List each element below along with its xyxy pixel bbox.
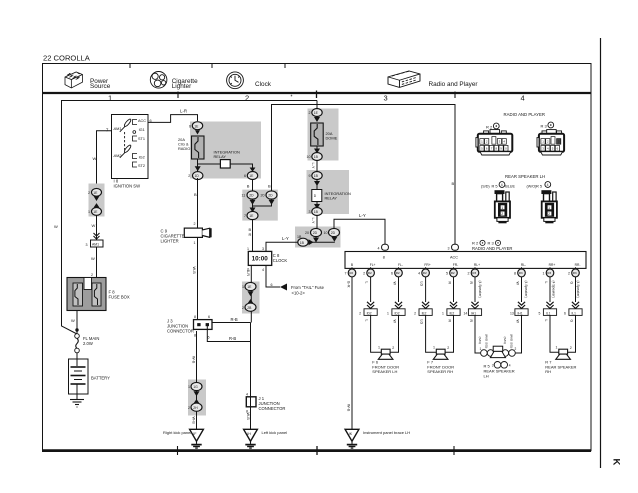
svg-text:4: 4 [246,393,248,397]
svg-text:1: 1 [247,247,249,251]
svg-text:8: 8 [383,256,385,260]
svg-text:RR+: RR+ [549,263,556,267]
svg-text:W: W [516,282,520,286]
svg-text:2D: 2D [313,231,318,235]
svg-text:R2: R2 [396,271,400,275]
svg-text:1: 1 [387,312,389,316]
svg-text:(S/D): (S/D) [503,337,507,344]
svg-text:L: L [365,320,369,322]
svg-text:1E: 1E [93,210,98,214]
svg-text:R: R [448,320,452,323]
svg-text:SPEAKER RH: SPEAKER RH [427,369,453,374]
svg-text:RELAY: RELAY [325,196,338,201]
svg-text:ACC: ACC [138,119,146,123]
svg-text:6: 6 [244,174,246,178]
svg-text:2: 2 [245,94,249,103]
svg-text:8: 8 [194,334,196,338]
svg-text:11: 11 [242,194,246,198]
svg-text:1: 1 [543,272,545,276]
svg-text:6: 6 [564,312,566,316]
svg-text:4: 4 [521,94,525,103]
svg-text:R: R [469,282,473,285]
svg-text:B: B [452,181,455,186]
svg-text:1E: 1E [194,124,199,128]
svg-text:IE2: IE2 [422,311,427,315]
svg-text:W: W [393,320,397,324]
svg-text:W-B: W-B [192,267,196,275]
svg-text:2: 2 [188,174,190,178]
svg-text:(S/D): (S/D) [478,337,482,344]
svg-text:ID2: ID2 [367,311,372,315]
svg-text:IK: IK [349,432,353,436]
svg-text:RADIO: RADIO [178,146,190,151]
svg-text:1E: 1E [247,285,252,289]
svg-text:RADIO AND PLAYER: RADIO AND PLAYER [472,246,512,251]
svg-text:2: 2 [188,406,190,410]
svg-text:20: 20 [305,231,309,235]
svg-text:R: R [469,320,473,323]
svg-text:4: 4 [378,247,380,251]
svg-text:2: 2 [309,111,311,115]
svg-text:W: W [71,318,75,323]
svg-text:1: 1 [108,94,112,103]
svg-text:IGNITION SW: IGNITION SW [114,184,141,189]
svg-text:1E: 1E [249,214,254,218]
svg-text:R3: R3 [519,271,523,275]
svg-text:SPEAKER LH: SPEAKER LH [372,369,397,374]
svg-text:L-Y: L-Y [311,163,315,169]
svg-text:1: 1 [194,241,196,245]
svg-text:5: 5 [446,272,448,276]
svg-text:ST1: ST1 [138,137,145,141]
svg-text:1E: 1E [314,111,319,115]
svg-text:B-R: B-R [246,270,250,277]
svg-text:CLOCK: CLOCK [273,258,288,263]
svg-text:R: R [448,282,452,285]
svg-text:L-Y: L-Y [311,218,315,224]
svg-text:W-B: W-B [192,356,196,364]
svg-text:10: 10 [307,155,311,159]
svg-text:2: 2 [392,346,394,350]
svg-text:W: W [93,156,97,161]
svg-text:3: 3 [309,210,311,214]
svg-text:CONNECTOR: CONNECTOR [167,329,194,334]
svg-text:(W/O S/D): (W/O S/D) [485,334,489,348]
svg-text:L-Y: L-Y [359,213,366,218]
svg-text:W: W [54,224,58,229]
svg-text:LG: LG [420,320,424,325]
svg-text:CONNECTOR: CONNECTOR [259,406,286,411]
svg-text:2B: 2B [247,306,252,310]
svg-text:13: 13 [510,312,514,316]
svg-text:1: 1 [442,312,444,316]
svg-text:8: 8 [514,272,516,276]
svg-text:4: 4 [547,183,549,187]
svg-text:IH1: IH1 [471,311,476,315]
svg-text:R 2: R 2 [486,124,493,129]
svg-text:6: 6 [391,272,393,276]
svg-text:ST2: ST2 [138,164,145,168]
svg-text:2: 2 [568,272,570,276]
svg-text:1: 1 [480,347,482,351]
svg-text:2: 2 [194,222,196,226]
svg-text:5: 5 [539,312,541,316]
svg-text:1G: 1G [193,385,198,389]
svg-text:Instrument panel brace LH: Instrument panel brace LH [363,430,410,435]
svg-text:9: 9 [309,174,311,178]
svg-text:2H: 2H [193,406,198,410]
svg-text:R 2: R 2 [472,241,479,246]
svg-text:IL1: IL1 [572,311,577,315]
svg-text:G: G [570,282,574,285]
svg-text:1: 1 [378,346,380,350]
svg-text:FUSE BOX: FUSE BOX [109,295,130,300]
svg-text:B: B [194,192,197,197]
svg-text:R3: R3 [472,271,476,275]
svg-text:L: L [544,320,548,322]
svg-text:FL-: FL- [398,263,403,267]
svg-text:IL1: IL1 [546,311,551,315]
svg-text:7: 7 [345,272,347,276]
svg-text:10:00: 10:00 [252,256,269,263]
svg-text:2: 2 [414,312,416,316]
svg-text:7: 7 [244,214,246,218]
svg-text:(4 Speaker): (4 Speaker) [524,281,528,298]
svg-text:Right kick panel: Right kick panel [163,430,191,435]
svg-text:1B: 1B [314,210,319,214]
svg-text:1B: 1B [314,155,319,159]
svg-text:(W/O): (W/O) [527,184,537,188]
svg-text:R 5: R 5 [536,183,542,188]
svg-text:IG1: IG1 [139,128,145,132]
svg-text:R2: R2 [349,271,353,275]
svg-text:RELAY: RELAY [214,154,227,159]
svg-text:BLUE: BLUE [505,184,515,188]
svg-text:L-R: L-R [180,109,187,114]
svg-text:2: 2 [548,212,550,216]
svg-text:(W/O S/D): (W/O S/D) [510,334,514,348]
svg-text:1: 1 [501,206,503,210]
svg-text:1B: 1B [297,235,302,239]
svg-text:LIGHTER: LIGHTER [161,239,179,244]
svg-text:2: 2 [91,273,93,277]
svg-text:IH1: IH1 [518,311,523,315]
svg-text:3: 3 [86,243,88,247]
svg-text:2: 2 [570,346,572,350]
svg-text:6: 6 [208,336,210,340]
svg-text:14: 14 [464,312,468,316]
svg-text:10: 10 [324,231,328,235]
svg-text:2.0W: 2.0W [83,341,93,346]
svg-text:W: W [516,320,520,324]
svg-text:AM1: AM1 [113,127,122,131]
svg-text:3: 3 [492,363,494,367]
svg-text:*: * [291,95,293,101]
svg-text:1D: 1D [195,174,200,178]
svg-text:2D: 2D [268,194,273,198]
svg-text:W: W [92,223,96,228]
svg-text:20: 20 [261,194,265,198]
svg-text:1B: 1B [314,174,319,178]
svg-text:L: L [365,282,369,284]
svg-text:2: 2 [501,212,503,216]
svg-text:8: 8 [194,315,196,319]
svg-text:1B: 1B [300,241,305,245]
svg-text:4: 4 [262,268,264,272]
svg-text:R2: R2 [368,271,372,275]
svg-text:DOME: DOME [326,136,338,141]
svg-text:3: 3 [262,247,264,251]
svg-text:W-B: W-B [192,417,196,425]
svg-text:From "TAIL" Fuse: From "TAIL" Fuse [291,285,325,290]
svg-text:4: 4 [418,272,420,276]
svg-text:1: 1 [433,346,435,350]
svg-text:(S/D): (S/D) [481,184,490,188]
svg-text:1: 1 [242,285,244,289]
svg-text:2: 2 [515,347,517,351]
svg-text:RR-: RR- [575,263,581,267]
svg-text:6: 6 [271,283,273,287]
svg-text:R3: R3 [573,271,577,275]
svg-text:ID2: ID2 [395,311,400,315]
svg-text:2: 2 [363,272,365,276]
svg-text:Clock: Clock [255,81,272,88]
svg-text:R 5: R 5 [492,183,498,188]
svg-text:L-Y: L-Y [282,236,289,241]
svg-text:BATTERY: BATTERY [91,376,110,381]
svg-text:22 COROLLA: 22 COROLLA [43,54,91,63]
svg-text:2: 2 [88,191,90,195]
svg-text:W-B: W-B [246,413,250,421]
svg-text:Left kick panel: Left kick panel [262,430,288,435]
svg-text:R2: R2 [451,271,455,275]
svg-text:W: W [393,282,397,286]
svg-text:6: 6 [208,315,210,319]
svg-text:B-R: B-R [347,281,351,288]
svg-text:2: 2 [242,306,244,310]
svg-text:1: 1 [556,346,558,350]
svg-text:LG: LG [420,282,424,287]
svg-text:LH: LH [484,374,489,379]
svg-text:L: L [544,282,548,284]
svg-text:R-B: R-B [229,336,236,341]
svg-text:RH: RH [545,369,551,374]
svg-text:4: 4 [509,363,511,367]
svg-text:REAR SPEAKER LH: REAR SPEAKER LH [505,174,545,179]
svg-text:Radio and Player: Radio and Player [429,81,479,88]
svg-text:2D: 2D [249,194,254,198]
svg-text:1E: 1E [249,174,254,178]
svg-text:R 3: R 3 [488,241,495,246]
svg-text:Lighter: Lighter [172,83,192,90]
svg-text:FL+: FL+ [370,263,376,267]
svg-text:W: W [91,256,95,261]
svg-text:K: K [611,459,622,466]
svg-text:AM1: AM1 [92,242,99,246]
svg-text:R3: R3 [547,271,551,275]
svg-text:W-B: W-B [347,404,351,412]
svg-text:R 3: R 3 [541,123,548,128]
svg-text:2: 2 [447,346,449,350]
svg-text:6: 6 [189,124,191,128]
svg-text:1: 1 [188,385,190,389]
svg-text:RL+: RL+ [474,263,480,267]
svg-text:R: R [249,232,252,237]
svg-text:RADIO AND PLAYER: RADIO AND PLAYER [504,112,545,117]
svg-text:Source: Source [90,83,111,90]
svg-text:ACC: ACC [450,256,458,260]
svg-text:<10-2>: <10-2> [292,291,306,296]
svg-text:4: 4 [501,183,503,187]
svg-text:1: 1 [548,206,550,210]
svg-text:IE2: IE2 [450,311,455,315]
svg-text:1E: 1E [93,191,98,195]
svg-text:B: B [247,184,250,189]
svg-text:FR+: FR+ [424,263,430,267]
svg-text:3: 3 [448,247,450,251]
svg-text:1: 1 [88,210,90,214]
svg-text:(4 Speaker): (4 Speaker) [552,281,556,298]
svg-text:G: G [570,320,574,323]
svg-text:3: 3 [384,94,388,103]
svg-text:2D: 2D [331,231,336,235]
svg-text:(4 Speaker): (4 Speaker) [576,281,580,298]
svg-text:(4 Speaker): (4 Speaker) [478,281,482,298]
svg-text:FR-: FR- [453,263,459,267]
svg-text:IH: IH [247,432,251,436]
svg-text:2: 2 [359,312,361,316]
svg-text:2: 2 [468,272,470,276]
svg-text:IG2: IG2 [139,156,145,160]
svg-text:RL-: RL- [521,263,526,267]
svg-text:R2: R2 [423,271,427,275]
svg-text:B: B [268,184,271,189]
svg-text:R-B: R-B [231,317,238,322]
